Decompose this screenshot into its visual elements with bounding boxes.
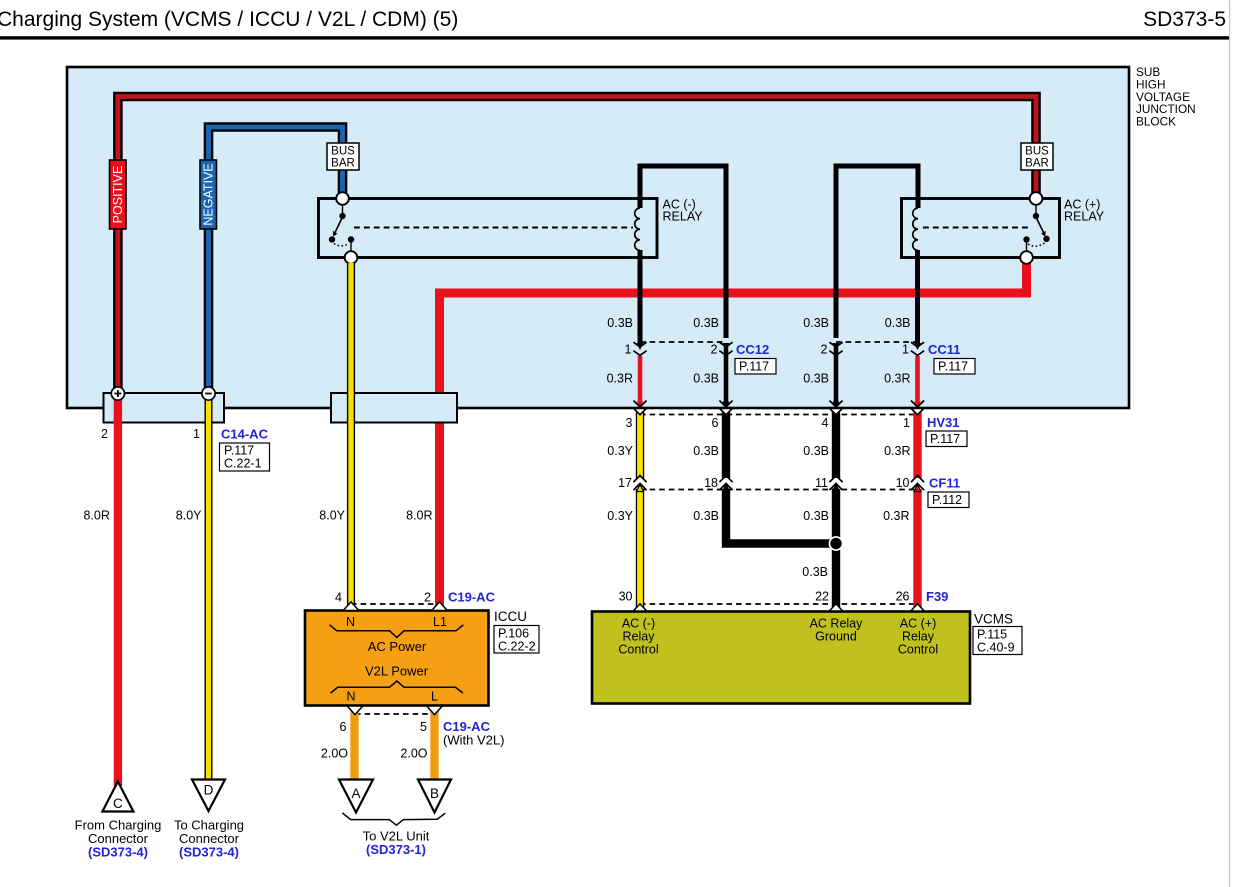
svg-text:4: 4 xyxy=(335,591,342,605)
svg-text:BLOCK: BLOCK xyxy=(1136,115,1176,129)
wire 0.3B col2 CC12 to HV31 xyxy=(724,346,729,406)
svg-text:30: 30 xyxy=(619,590,633,604)
connector symbol HV31 pin4 xyxy=(829,401,842,415)
BUS BAR label left xyxy=(327,143,359,170)
connector label C19-AC top xyxy=(448,590,496,605)
wire labels below CF11 xyxy=(607,509,909,523)
svg-text:1: 1 xyxy=(902,343,909,357)
svg-text:0.3B: 0.3B xyxy=(803,372,829,386)
wire 8.0Y C14-AC pin1 to triangle D xyxy=(205,397,213,779)
connector CF11 dashed line xyxy=(640,489,918,491)
junction block name label xyxy=(1136,65,1196,129)
svg-text:P.112: P.112 xyxy=(932,493,962,507)
ICCU label V2L Power xyxy=(365,664,429,679)
svg-text:26: 26 xyxy=(896,590,910,604)
connector box pass-through xyxy=(331,393,457,423)
connector symbol CF11 pin18 xyxy=(719,476,732,492)
svg-text:0.3B: 0.3B xyxy=(803,444,829,458)
svg-text:22: 22 xyxy=(815,590,829,604)
wire 0.3B col3 CF11 to F39 xyxy=(832,489,840,610)
svg-text:POSITIVE: POSITIVE xyxy=(111,166,125,224)
AC(+) relay bottom terminal xyxy=(1020,251,1033,264)
svg-text:Ground: Ground xyxy=(815,630,857,644)
off-page triangle A xyxy=(339,780,373,813)
svg-text:(SD373-4): (SD373-4) xyxy=(88,845,148,860)
pin numbers CC11 xyxy=(821,343,910,357)
ICCU pin names N L1 xyxy=(346,615,447,629)
svg-text:11: 11 xyxy=(815,476,828,490)
wire 0.3Y col1 CF11 to F39 xyxy=(636,489,644,610)
svg-text:6: 6 xyxy=(340,720,347,734)
VCMS pin label AC(-) Relay Control xyxy=(618,617,658,657)
svg-text:CF11: CF11 xyxy=(929,476,960,491)
pin numbers C14-AC xyxy=(101,427,200,441)
pin numbers F39 xyxy=(619,590,910,604)
svg-text:N: N xyxy=(346,615,355,629)
wire POSITIVE bus (outlined red) xyxy=(118,97,1036,392)
svg-text:0.3B: 0.3B xyxy=(693,316,719,330)
svg-text:(With V2L): (With V2L) xyxy=(443,733,504,748)
svg-text:P.115: P.115 xyxy=(977,628,1007,642)
wire 0.3B col3 HV31 to CF11 xyxy=(832,410,840,479)
VCMS pin label AC(+) Relay Control xyxy=(898,617,938,657)
caption To Charging Connector xyxy=(174,818,244,860)
svg-text:0.3B: 0.3B xyxy=(885,316,911,330)
connector label F39 xyxy=(926,589,948,604)
svg-text:17: 17 xyxy=(618,476,632,490)
wire 0.3R col4 CC11 to HV31 xyxy=(915,356,920,406)
wire labels below HV31 xyxy=(607,444,910,458)
BUS BAR label right xyxy=(1021,143,1053,170)
caption To V2L Unit xyxy=(363,829,430,858)
svg-text:0.3B: 0.3B xyxy=(802,565,828,579)
wire labels 0.3B above CC12/CC11 xyxy=(607,316,910,330)
wire 0.3R col4 HV31 to CF11 xyxy=(913,410,921,479)
connector symbol CC11 pin2 xyxy=(829,342,842,355)
svg-text:L1: L1 xyxy=(433,615,447,629)
junction block SUB HIGH VOLTAGE xyxy=(67,67,1129,408)
svg-text:P.117: P.117 xyxy=(224,444,254,458)
connector C19-AC top dashed line xyxy=(351,603,440,605)
VCMS box xyxy=(592,612,970,704)
svg-text:2: 2 xyxy=(101,427,108,441)
title text xyxy=(0,8,1226,31)
connector notch F39 pin26 xyxy=(911,604,924,611)
ICCU pin names N L bottom xyxy=(346,690,438,704)
AC(-) relay top terminal xyxy=(336,192,349,205)
pin numbers CF11 xyxy=(618,476,909,490)
wire 2.0O to triangle A xyxy=(350,707,358,782)
connector symbol CC12 pin1 xyxy=(633,342,646,355)
svg-text:0.3B: 0.3B xyxy=(803,509,829,523)
wire 8.0R thick red from AC(+) relay to ICCU xyxy=(440,260,1027,608)
AC(+) relay coil xyxy=(913,208,918,250)
wire 2.0O to triangle B xyxy=(430,707,438,782)
wire 0.3B col3 CC11 to HV31 xyxy=(834,346,839,406)
wire 0.3B col1 relay to CC12 xyxy=(638,250,643,343)
svg-text:RELAY: RELAY xyxy=(1064,210,1105,224)
svg-text:0.3Y: 0.3Y xyxy=(607,444,633,458)
wire label 0.3B ground segment xyxy=(802,565,828,579)
svg-text:AC Power: AC Power xyxy=(368,639,427,654)
svg-text:8.0R: 8.0R xyxy=(83,509,109,523)
To V2L Unit brace xyxy=(342,813,445,825)
svg-text:P.117: P.117 xyxy=(739,360,769,374)
svg-text:1: 1 xyxy=(903,416,910,430)
svg-text:(SD373-1): (SD373-1) xyxy=(366,842,426,857)
svg-text:VCMS: VCMS xyxy=(974,612,1013,627)
ground junction dot xyxy=(829,536,844,551)
svg-text:2: 2 xyxy=(711,343,718,357)
svg-text:P.117: P.117 xyxy=(930,432,960,446)
ICCU page ref box xyxy=(494,626,539,654)
ICCU AC Power brace xyxy=(330,625,464,638)
ICCU name label xyxy=(494,609,527,624)
svg-text:0.3Y: 0.3Y xyxy=(607,509,633,523)
connector symbol CF11 pin10 xyxy=(911,476,924,492)
svg-text:CC11: CC11 xyxy=(928,342,961,357)
svg-text:8.0Y: 8.0Y xyxy=(319,509,345,523)
ICCU label AC Power xyxy=(368,639,427,654)
connector label HV31 xyxy=(926,415,967,447)
wire NEGATIVE bus (outlined blue) xyxy=(209,127,343,391)
connector symbol CF11 pin17 xyxy=(633,476,646,492)
connector notch F39 pin22 xyxy=(829,604,842,611)
svg-text:RELAY: RELAY xyxy=(663,210,704,224)
AC(+) relay top terminal xyxy=(1030,192,1043,205)
svg-text:0.3R: 0.3R xyxy=(883,509,909,523)
AC(-) relay switch xyxy=(329,203,354,253)
svg-text:ICCU: ICCU xyxy=(494,609,527,624)
svg-text:F39: F39 xyxy=(926,589,948,604)
NEGATIVE label xyxy=(200,160,217,229)
wire 0.3B col2 elbow to ground junction xyxy=(726,489,836,544)
AC(+) relay internal dashed line xyxy=(923,227,1030,229)
POSITIVE label xyxy=(110,160,127,229)
wire 0.3Y col1 HV31 to CF11 xyxy=(636,410,644,479)
svg-text:Control: Control xyxy=(618,643,658,657)
caption From Charging Connector xyxy=(75,818,162,860)
pin numbers HV31 xyxy=(626,416,911,430)
AC(+) relay switch xyxy=(1023,203,1049,253)
svg-text:1: 1 xyxy=(193,427,200,441)
svg-text:8.0Y: 8.0Y xyxy=(176,509,202,523)
svg-text:P.106: P.106 xyxy=(498,627,529,641)
wire 0.3B col4 coil to CC11 xyxy=(915,250,920,343)
svg-text:5: 5 xyxy=(420,720,427,734)
svg-text:A: A xyxy=(351,786,360,801)
svg-text:P.117: P.117 xyxy=(938,360,968,374)
svg-text:BUS: BUS xyxy=(331,146,355,158)
svg-text:BUS: BUS xyxy=(1025,146,1049,158)
svg-text:10: 10 xyxy=(896,476,910,490)
svg-text:C19-AC: C19-AC xyxy=(448,590,496,605)
connector F39 dashed line xyxy=(640,603,918,605)
svg-text:0.3B: 0.3B xyxy=(607,316,633,330)
VCMS pin label AC Relay Ground xyxy=(810,617,864,644)
wire 8.0R C14-AC pin2 to triangle C xyxy=(114,397,122,786)
svg-text:18: 18 xyxy=(704,476,718,490)
pin numbers C19-AC bottom xyxy=(340,720,428,734)
svg-text:0.3B: 0.3B xyxy=(693,444,719,458)
svg-text:2.0O: 2.0O xyxy=(400,747,427,761)
svg-text:C.22-2: C.22-2 xyxy=(498,640,536,654)
connector C19-AC bottom dashed line xyxy=(355,713,435,715)
connector CC12 dashed line xyxy=(640,341,726,343)
svg-text:C.40-9: C.40-9 xyxy=(977,641,1015,655)
off-page triangle D xyxy=(192,780,225,812)
wire labels 8.0R 8.0Y xyxy=(83,509,432,523)
svg-text:CC12: CC12 xyxy=(736,342,769,357)
terminal (+) on C14-AC xyxy=(111,387,124,400)
connector CC11 dashed line xyxy=(836,341,918,343)
relay box AC(-) xyxy=(319,199,658,258)
connector label CC12 xyxy=(735,342,776,374)
connector notch C19-AC pin6 xyxy=(347,706,363,715)
title rule xyxy=(0,36,1230,39)
svg-text:0.3R: 0.3R xyxy=(607,372,633,386)
connector box C14-AC xyxy=(104,393,225,423)
ICCU box xyxy=(305,611,489,706)
connector notch F39 pin30 xyxy=(633,604,646,611)
AC(-) relay coil xyxy=(635,208,640,250)
AC(-) relay name xyxy=(663,198,704,224)
AC(+) relay name xyxy=(1064,198,1105,224)
connector symbol CC11 pin1 xyxy=(911,342,924,355)
svg-text:AC (-): AC (-) xyxy=(622,617,655,631)
VCMS name label xyxy=(974,612,1013,627)
svg-text:HV31: HV31 xyxy=(927,415,960,430)
svg-text:Relay: Relay xyxy=(902,630,935,644)
svg-text:0.3B: 0.3B xyxy=(693,509,719,523)
wire bracket over AC(+) relay xyxy=(836,166,918,338)
relay box AC(+) xyxy=(902,199,1060,258)
svg-text:0.3B: 0.3B xyxy=(803,316,829,330)
svg-text:BAR: BAR xyxy=(1025,158,1049,170)
connector symbol HV31 pin3 xyxy=(633,401,646,415)
svg-text:AC Relay: AC Relay xyxy=(810,617,864,631)
svg-text:C14-AC: C14-AC xyxy=(221,427,269,442)
pin numbers C19-AC top xyxy=(335,591,431,605)
connector notch C19-AC pin2 xyxy=(432,602,448,611)
wire bracket over AC(-) relay xyxy=(640,166,726,338)
AC(-) relay internal dashed line xyxy=(354,227,633,229)
svg-text:BAR: BAR xyxy=(331,158,355,170)
svg-text:V2L Power: V2L Power xyxy=(365,664,429,679)
svg-text:6: 6 xyxy=(712,416,719,430)
AC(-) relay bottom terminal xyxy=(345,251,358,264)
terminal (-) on C14-AC xyxy=(202,387,215,400)
wire 0.3R col1 CC12 to HV31 xyxy=(638,356,643,406)
off-page triangle C xyxy=(102,782,133,812)
svg-text:C.22-1: C.22-1 xyxy=(224,457,262,471)
wire 0.3R col4 CF11 to F39 xyxy=(913,489,921,610)
svg-text:2: 2 xyxy=(424,591,431,605)
VCMS page ref box xyxy=(973,627,1022,655)
svg-text:AC (+): AC (+) xyxy=(900,617,936,631)
svg-text:0.3R: 0.3R xyxy=(884,444,910,458)
svg-text:2: 2 xyxy=(821,343,828,357)
off-page triangle B xyxy=(418,780,451,813)
wire labels below CC12/CC11 xyxy=(607,372,911,386)
svg-text:1: 1 xyxy=(625,343,632,357)
svg-text:D: D xyxy=(204,783,214,798)
connector symbol CF11 pin11 xyxy=(829,476,842,492)
svg-text:0.3R: 0.3R xyxy=(884,372,910,386)
svg-text:Charging System (VCMS / ICCU /: Charging System (VCMS / ICCU / V2L / CDM… xyxy=(0,8,458,31)
page right border xyxy=(1229,0,1230,887)
connector HV31 dashed line xyxy=(640,414,918,416)
svg-text:NEGATIVE: NEGATIVE xyxy=(202,163,216,225)
svg-text:SD373-5: SD373-5 xyxy=(1143,8,1226,31)
connector label CF11 xyxy=(928,476,969,508)
connector notch C19-AC pin5 xyxy=(427,706,443,715)
svg-text:8.0R: 8.0R xyxy=(406,509,432,523)
pin numbers CC12 xyxy=(625,343,718,357)
connector notch C19-AC pin4 xyxy=(343,602,359,611)
svg-text:3: 3 xyxy=(626,416,633,430)
wire labels 2.0O xyxy=(321,747,428,761)
connector label C19-AC bottom xyxy=(443,719,504,748)
connector symbol CC12 pin2 xyxy=(719,342,732,355)
svg-text:C: C xyxy=(113,796,123,811)
svg-text:L: L xyxy=(431,690,438,704)
svg-text:0.3B: 0.3B xyxy=(693,372,719,386)
connector symbol HV31 pin1 xyxy=(911,401,924,415)
connector symbol HV31 pin6 xyxy=(719,401,732,415)
svg-text:(SD373-4): (SD373-4) xyxy=(179,845,239,860)
svg-text:N: N xyxy=(346,690,355,704)
svg-text:4: 4 xyxy=(822,416,829,430)
svg-text:Control: Control xyxy=(898,643,938,657)
connector label C14-AC xyxy=(220,427,270,472)
wire 8.0Y relay to ICCU pin4 xyxy=(347,263,355,610)
svg-text:Relay: Relay xyxy=(623,630,656,644)
ICCU V2L Power brace xyxy=(331,681,463,693)
svg-text:B: B xyxy=(430,786,439,801)
connector label CC11 xyxy=(928,342,975,374)
svg-text:2.0O: 2.0O xyxy=(321,747,348,761)
wire 0.3B col2 HV31 to CF11 xyxy=(722,410,730,479)
